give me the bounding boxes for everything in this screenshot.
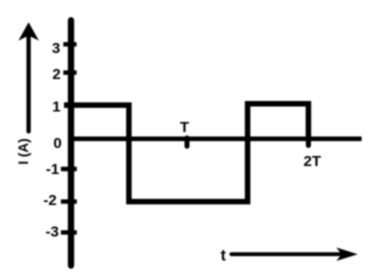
svg-text:I (A): I (A) (16, 138, 31, 164)
svg-text:t: t (221, 248, 227, 265)
tick y=-3 (61, 230, 77, 234)
svg-text:-3: -3 (46, 223, 59, 240)
tick y=-1 (61, 167, 77, 171)
y-axis (68, 20, 74, 265)
svg-text:T: T (180, 119, 189, 136)
tick at t=T (185, 138, 190, 146)
I axis direction arrow head (18, 22, 39, 40)
I axis direction arrow shaft (26, 34, 30, 131)
svg-text:-2: -2 (43, 192, 56, 209)
t axis direction arrow shaft (231, 252, 340, 256)
svg-text:1: 1 (52, 99, 60, 116)
svg-text:2: 2 (52, 66, 60, 83)
svg-text:-1: -1 (46, 161, 59, 178)
svg-text:2T: 2T (304, 153, 322, 170)
tick y=2 (63, 70, 76, 74)
tick y=3 (63, 42, 76, 46)
svg-text:3: 3 (52, 40, 60, 57)
square wave current waveform (64, 104, 308, 202)
tick at t=2T (306, 138, 311, 145)
svg-text:0: 0 (53, 135, 61, 152)
tick y=-2 (61, 199, 77, 203)
t axis direction arrow head (336, 248, 357, 261)
x-axis (68, 137, 362, 142)
